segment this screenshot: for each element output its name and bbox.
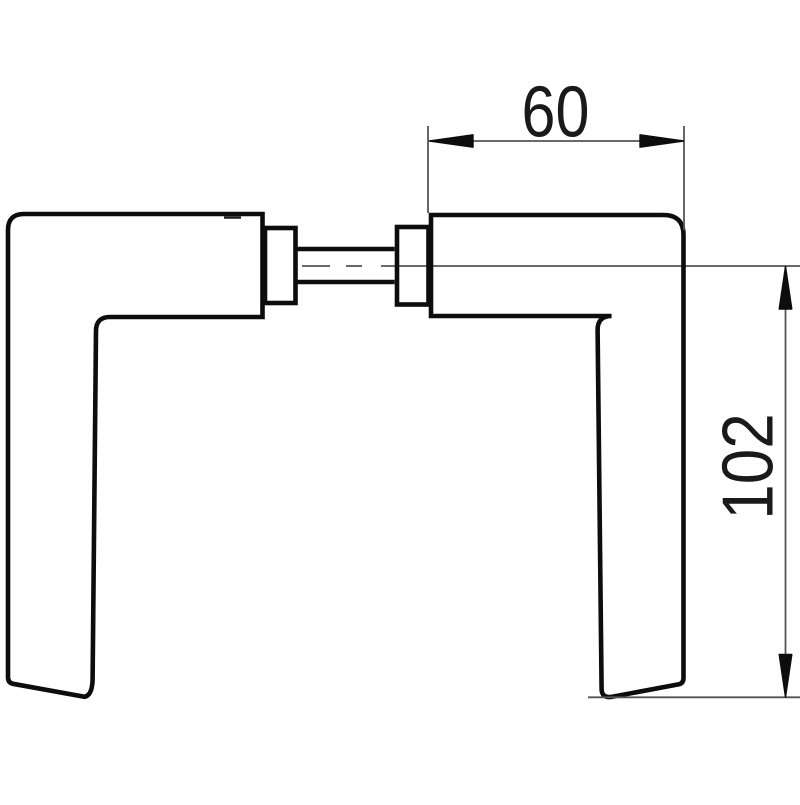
left handle outline	[8, 214, 263, 697]
dim 60: left arrow	[430, 135, 474, 147]
dim 102: bottom reference line	[588, 696, 800, 698]
dim 60: left extension line	[427, 126, 429, 213]
centerline solid extension to right edge	[381, 265, 800, 267]
small mark on left grip top edge	[224, 216, 241, 218]
centerline dash 2	[346, 265, 362, 267]
right handle outline	[431, 215, 684, 697]
dim 60: dimension line	[430, 140, 684, 142]
svg-text:102: 102	[708, 413, 788, 520]
svg-text:60: 60	[522, 73, 590, 153]
dim 102: top arrow	[779, 267, 792, 310]
left neck block	[265, 228, 296, 303]
dim 102: dimension line	[785, 267, 787, 698]
centerline dash 1	[302, 265, 330, 267]
spindle top line	[297, 247, 395, 252]
dim 102: bottom arrow	[779, 655, 792, 698]
right neck block	[397, 227, 429, 305]
dim 60: right arrow	[640, 135, 684, 147]
spindle bottom line	[297, 280, 395, 285]
dim 60: right extension line	[683, 126, 685, 230]
